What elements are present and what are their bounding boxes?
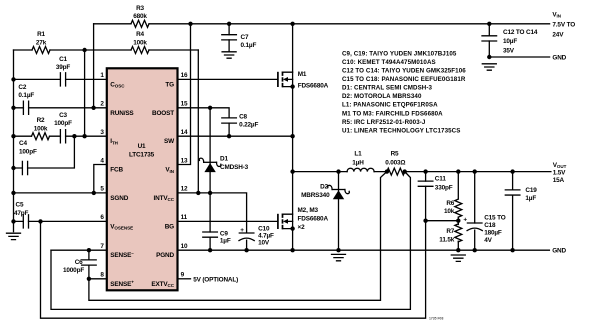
resistor R4 [131, 47, 149, 54]
svg-text:27k: 27k [36, 40, 47, 47]
transistor M2/M3 (NMOS) [277, 214, 279, 229]
node INTVCC-R4 junction [196, 191, 200, 195]
svg-text:100pF: 100pF [19, 148, 37, 155]
node PGND-D2 ground [336, 248, 340, 252]
svg-text:M1 TO M3: FAIRCHILD FDS6680A: M1 TO M3: FAIRCHILD FDS6680A [342, 110, 443, 117]
resistor R1 [32, 47, 50, 54]
wire BOOST pin 15 row to C8 [178, 108, 230, 118]
svg-text:C4: C4 [19, 140, 27, 147]
wire M1 drain / source vertical [292, 24, 294, 172]
node VIN rail to M1 drain [290, 22, 294, 26]
wire SENSE- pin 7 row [51, 249, 107, 251]
node divider mid at C11 [423, 219, 427, 223]
node R5 left sense tap [385, 169, 389, 173]
svg-text:10µF: 10µF [503, 38, 517, 45]
svg-text:FCB: FCB [110, 167, 123, 174]
node VIN rail to C12-C14 [487, 22, 491, 26]
node SW pin to M1 source line [290, 134, 294, 138]
svg-text:C5: C5 [16, 202, 24, 209]
svg-text:680k: 680k [133, 13, 147, 20]
svg-text:7: 7 [100, 243, 104, 250]
svg-text:11: 11 [181, 214, 188, 221]
wire divider mid link [426, 220, 459, 222]
svg-text:C3: C3 [59, 112, 67, 119]
svg-text:SENSE–: SENSE– [110, 251, 134, 259]
node PGND-R7 [456, 248, 460, 252]
svg-text:10V: 10V [258, 239, 270, 246]
node SENSE+ / C6 junction [87, 277, 91, 281]
svg-text:0.1µF: 0.1µF [18, 92, 34, 99]
svg-text:GND: GND [552, 248, 566, 255]
node PGND-C15-C18 [473, 248, 477, 252]
svg-text:×2: ×2 [298, 224, 306, 231]
svg-text:10: 10 [181, 243, 188, 250]
op-amp U1 LTC1735 controller IC body [107, 68, 178, 290]
node rail-VOSENSE [11, 219, 15, 223]
svg-text:R3: R3 [136, 5, 144, 12]
node M2 source [290, 226, 294, 230]
diode D2 (schottky, cathode up) [332, 189, 345, 191]
svg-text:C11: C11 [435, 175, 447, 182]
svg-text:C1: C1 [59, 56, 67, 63]
node rail-RUN/SS [11, 106, 15, 110]
svg-text:1µF: 1µF [220, 238, 231, 245]
wire R4 corner down to INTVCC pin 12 [197, 50, 199, 193]
svg-text:180µF: 180µF [484, 230, 502, 237]
svg-text:L1: L1 [354, 151, 362, 158]
wire COSC pin 1 row [14, 78, 107, 80]
svg-text:8: 8 [100, 272, 104, 279]
svg-text:14: 14 [181, 129, 188, 136]
wire SW pin 14 row [178, 135, 293, 137]
node rail-COSC [11, 77, 15, 81]
node VOUT-C11 [423, 169, 427, 173]
svg-text:15A: 15A [553, 177, 565, 184]
wire SENSE- kelvin middle bottom [51, 172, 410, 310]
svg-text:10k: 10k [444, 208, 455, 215]
wire C9 vertical [209, 193, 211, 250]
capacitor C19 [505, 190, 520, 195]
node rail-SGND [11, 191, 15, 195]
resistor R5 [387, 168, 405, 175]
inductor L1 [347, 168, 374, 171]
svg-text:U1: U1 [138, 143, 146, 150]
wire VOSENSE feedback outer bottom [41, 221, 426, 319]
node SENSE- / C6 junction [87, 248, 91, 252]
node input GND at C12-C14 [487, 55, 491, 59]
capacitor C3 [60, 130, 65, 143]
node C4-ITH junction [72, 134, 76, 138]
svg-text:5: 5 [100, 186, 104, 193]
wire R1 junction down to ITH pin 3 [84, 50, 86, 136]
diode D1 (schottky, cathode up) [204, 161, 217, 163]
node PGND-C9 [208, 248, 212, 252]
svg-text:9: 9 [181, 272, 185, 279]
node R5 right sense tap [403, 169, 407, 173]
node VOUT-R6 [456, 169, 460, 173]
svg-text:C15 TO: C15 TO [484, 215, 506, 222]
capacitor C10 (polarized) [239, 232, 254, 234]
wire FCB pin 4 to SGND [94, 165, 107, 193]
svg-text:1µH: 1µH [352, 159, 364, 166]
ground below left rail [7, 233, 21, 239]
svg-text:0.003Ω: 0.003Ω [385, 159, 405, 166]
svg-text:U1: LINEAR TECHNOLOGY LTC1735C: U1: LINEAR TECHNOLOGY LTC1735CS [342, 127, 460, 134]
svg-text:BG: BG [165, 223, 174, 230]
node SW switch node [290, 169, 294, 173]
svg-text:D1: CENTRAL SEMI CMDSH-3: D1: CENTRAL SEMI CMDSH-3 [342, 85, 433, 92]
svg-text:L1: PANASONIC ETQP6F1R0SA: L1: PANASONIC ETQP6F1R0SA [342, 102, 438, 109]
svg-text:2: 2 [100, 101, 104, 108]
svg-text:1.5V: 1.5V [553, 169, 566, 176]
resistor R3 [131, 20, 149, 27]
resistor R2 [32, 133, 50, 140]
svg-text:LTC1735: LTC1735 [129, 151, 155, 158]
svg-text:D1: D1 [220, 156, 228, 163]
svg-text:FDS6680A: FDS6680A [298, 216, 329, 223]
ground below D2 [332, 254, 346, 260]
wire VIN rail down to VIN pin 13 [178, 24, 191, 165]
node VIN rail to C7 [227, 22, 231, 26]
capacitor C11 [418, 181, 433, 186]
svg-text:CMDSH-3: CMDSH-3 [220, 164, 249, 171]
wire TG pin 16 row to M1 gate [178, 78, 278, 80]
svg-text:R5: IRC LRF2512-01-R003-J: R5: IRC LRF2512-01-R003-J [342, 119, 426, 126]
capacitor C2 [23, 101, 28, 114]
svg-text:GND: GND [552, 55, 566, 62]
resistor R7 [455, 224, 462, 242]
transistor M1 (NMOS) [277, 72, 279, 87]
node divider mid at R6/R7 [456, 219, 460, 223]
svg-text:C10: C10 [258, 225, 270, 232]
svg-text:RUN/SS: RUN/SS [110, 110, 134, 117]
node PGND-C10 [244, 248, 248, 252]
wire C4 row [14, 136, 75, 168]
node R1-ITH junction [82, 134, 86, 138]
svg-text:35V: 35V [503, 47, 515, 54]
svg-text:C2: C2 [18, 84, 26, 91]
svg-text:100k: 100k [34, 126, 48, 133]
svg-text:12: 12 [181, 186, 188, 193]
svg-text:C9: C9 [220, 230, 228, 237]
wire R1/R4 row [14, 49, 199, 51]
svg-text:C7: C7 [241, 34, 249, 41]
node R3-RUN/SS junction [91, 106, 95, 110]
svg-text:1000pF: 1000pF [63, 267, 84, 274]
svg-text:C8: C8 [239, 114, 247, 121]
node VOUT-C19 [510, 169, 514, 173]
wire C15-C18 vertical [474, 172, 476, 251]
node SW-C8 junction [227, 134, 231, 138]
wire R3 corner down to RUN/SS pin 2 [93, 24, 95, 108]
wire INTVCC pin 12 row to C10 [178, 193, 247, 233]
wire D2 vertical [338, 172, 340, 251]
svg-text:11.5k: 11.5k [439, 237, 454, 244]
svg-text:47pF: 47pF [14, 210, 29, 217]
wire C12-C14 vertical [488, 24, 490, 57]
node VOSENSE feedback tap [38, 219, 42, 223]
node rail-ITH [11, 134, 15, 138]
svg-text:1735 F08: 1735 F08 [429, 317, 443, 321]
svg-text:15: 15 [181, 101, 188, 108]
wire RUN/SS pin 2 row [14, 107, 107, 109]
wire VOSENSE pin 6 row [14, 220, 107, 222]
svg-text:0.1µF: 0.1µF [241, 42, 257, 49]
wire left ground rail [13, 50, 15, 232]
wire C8 bottom to SW row [228, 123, 230, 136]
svg-text:SGND: SGND [110, 195, 128, 202]
svg-text:D2: D2 [320, 183, 328, 190]
wire EXTVCC pin 9 stub [178, 278, 191, 280]
wire PGND bus [178, 249, 550, 251]
wire C11 vertical [425, 172, 427, 221]
svg-text:39pF: 39pF [56, 64, 71, 71]
svg-text:BOOST: BOOST [152, 110, 174, 117]
svg-text:C12 TO C14: TAIYO YUDEN GMK325: C12 TO C14: TAIYO YUDEN GMK325F106 [342, 68, 466, 75]
svg-text:7.5V TO: 7.5V TO [552, 21, 575, 28]
svg-text:R4: R4 [136, 31, 144, 38]
svg-text:R1: R1 [37, 31, 45, 38]
svg-text:TG: TG [165, 81, 174, 88]
resistor R6 [455, 199, 462, 217]
svg-text:R7: R7 [446, 228, 454, 235]
svg-text:330pF: 330pF [435, 184, 453, 191]
svg-text:13: 13 [181, 157, 188, 164]
capacitor C4 [22, 161, 27, 174]
svg-text:+: + [463, 216, 467, 223]
svg-text:SENSE+: SENSE+ [110, 280, 134, 288]
wire SGND pin 5 row [14, 192, 107, 194]
svg-text:C12 TO C14: C12 TO C14 [503, 29, 538, 36]
node INTVCC-D1/C9 junction [208, 191, 212, 195]
svg-text:M1: M1 [298, 71, 307, 78]
wire SENSE+ pin 8 row [89, 278, 107, 280]
svg-text:0.22µF: 0.22µF [239, 122, 258, 129]
node PGND-C19 [510, 248, 514, 252]
wire C7 branch [228, 24, 230, 52]
svg-text:C6: C6 [75, 259, 83, 266]
svg-text:3: 3 [100, 129, 104, 136]
svg-text:R5: R5 [391, 151, 399, 158]
node SW-D2 junction [336, 169, 340, 173]
node M1 source [290, 84, 294, 88]
svg-text:M2, M3: M2, M3 [298, 207, 319, 214]
svg-text:C9, C19: TAIYO YUDEN JMK107BJ1: C9, C19: TAIYO YUDEN JMK107BJ105 [342, 50, 457, 57]
ground below C7 [222, 52, 236, 58]
wire C19 vertical [512, 172, 514, 251]
svg-text:4.7µF: 4.7µF [258, 232, 274, 239]
wire ITH pin 3 row [14, 135, 107, 137]
svg-text:4: 4 [100, 157, 104, 164]
svg-text:C19: C19 [525, 187, 537, 194]
node R1/R3 junction [82, 48, 86, 52]
capacitor C12-C14 [482, 36, 497, 41]
svg-text:MBRS340: MBRS340 [301, 192, 330, 199]
svg-text:R6: R6 [446, 200, 454, 207]
node VIN rail to pin13 [188, 22, 192, 26]
wire D1 boost diode vertical [209, 108, 211, 193]
capacitor C5 [23, 215, 28, 228]
wire SW - VOUT row [293, 171, 551, 173]
capacitor C6 [82, 260, 97, 265]
svg-text:C15 TO C18: PANASONIC EEFUE0G1: C15 TO C18: PANASONIC EEFUE0G181R [342, 76, 466, 83]
wire VIN top rail [94, 23, 550, 25]
svg-text:C18: C18 [484, 222, 496, 229]
svg-text:5V (OPTIONAL): 5V (OPTIONAL) [193, 276, 238, 283]
ground below R7 [451, 255, 465, 261]
wire C10 bottom to PGND [246, 240, 248, 250]
svg-text:R2: R2 [37, 117, 45, 124]
svg-text:D2: MOTOROLA MBRS340: D2: MOTOROLA MBRS340 [342, 93, 422, 100]
svg-text:SW: SW [164, 138, 175, 145]
wire M2 drain / source vertical [292, 172, 294, 251]
svg-text:PGND: PGND [156, 252, 174, 259]
svg-text:1: 1 [100, 72, 104, 79]
wire R6/R7 divider vertical [457, 172, 459, 251]
capacitor C7 [222, 35, 237, 40]
node rail-C4 row [11, 166, 15, 170]
capacitor C1 [60, 73, 65, 86]
node BOOST-D1 junction [208, 106, 212, 110]
wire C6 vertical + SENSE+ kelvin inner bottom [89, 172, 387, 301]
svg-text:+: + [240, 227, 244, 234]
node VOUT-C15-C18 [473, 169, 477, 173]
svg-text:100pF: 100pF [54, 120, 72, 127]
svg-text:16: 16 [181, 72, 188, 79]
capacitor C9 [203, 232, 218, 237]
capacitor C15-C18 (polarized) [467, 222, 482, 224]
capacitor C8 [222, 118, 237, 123]
svg-text:100k: 100k [133, 40, 147, 47]
svg-text:4V: 4V [484, 237, 492, 244]
svg-text:1µF: 1µF [525, 195, 536, 202]
svg-text:C10: KEMET T494A475M010AS: C10: KEMET T494A475M010AS [342, 59, 436, 66]
ground below C12-C14 [482, 64, 496, 70]
node M2 source to PGND [290, 248, 294, 252]
svg-text:6: 6 [100, 214, 104, 221]
wire input GND [489, 56, 549, 58]
node FCB-SGND junction [92, 191, 96, 195]
svg-text:24V: 24V [552, 31, 564, 38]
wire BG pin 11 row to M2 gate [178, 220, 278, 222]
svg-text:FDS6680A: FDS6680A [298, 83, 329, 90]
